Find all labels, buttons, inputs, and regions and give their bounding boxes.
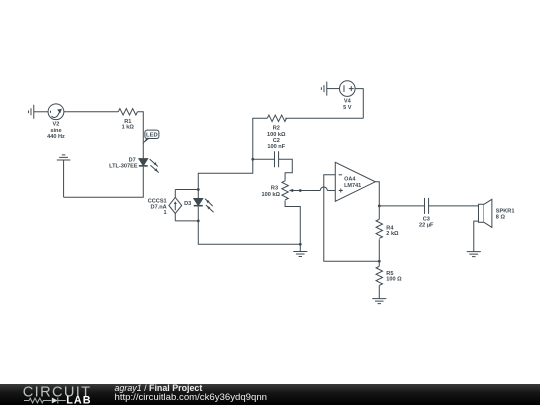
ground G6 below speaker xyxy=(467,252,481,257)
label R4 xyxy=(386,225,399,237)
feedback wire to - input xyxy=(324,175,380,262)
voltage source V4 xyxy=(339,81,355,97)
op-amp OA4 xyxy=(335,162,375,201)
label D7 xyxy=(109,158,138,170)
current source CCCS1 xyxy=(169,189,182,220)
label C2 xyxy=(267,138,285,150)
svg-text:LTL-307EE: LTL-307EE xyxy=(109,164,138,170)
wire node to CCCS1 top xyxy=(198,159,253,189)
wire CCCS top xyxy=(175,188,198,190)
svg-text:LED: LED xyxy=(146,133,158,139)
resistor R5 xyxy=(376,266,382,285)
resistor R4 xyxy=(376,219,382,238)
wire D7 to bottom xyxy=(64,167,144,198)
svg-text:sine: sine xyxy=(50,128,61,134)
svg-text:100 Ω: 100 Ω xyxy=(386,277,402,283)
svg-text:100 nF: 100 nF xyxy=(267,144,285,150)
svg-text:100 kΩ: 100 kΩ xyxy=(267,132,286,138)
capacitor C2 xyxy=(253,151,293,181)
output wire xyxy=(375,182,379,206)
junction node R3 wiper xyxy=(299,189,302,192)
label C3 xyxy=(419,217,434,229)
voltage source V2 xyxy=(48,104,64,120)
ground G2 inverted xyxy=(57,155,71,197)
svg-text:V4: V4 xyxy=(344,99,352,105)
ground G3 bottom rail xyxy=(293,244,307,256)
svg-text:D3: D3 xyxy=(184,201,191,207)
ground G4 left of V4 xyxy=(321,82,339,96)
speaker SPKR1 xyxy=(474,199,492,251)
svg-text:R2: R2 xyxy=(273,126,280,132)
footer bar xyxy=(0,384,540,405)
label R2 xyxy=(267,126,286,138)
label R1 xyxy=(122,119,135,131)
junction node CCCS1/D3 top xyxy=(197,188,200,191)
wire R4 to R5 xyxy=(378,239,380,266)
svg-text:OA4: OA4 xyxy=(344,177,356,183)
junction node op-amp output xyxy=(378,204,381,207)
svg-text:1: 1 xyxy=(164,210,167,216)
junction node R2/C2 xyxy=(251,158,254,161)
junction node CCCS1/D3 bottom xyxy=(197,219,200,222)
svg-text:V2: V2 xyxy=(53,122,60,128)
resistor R1 xyxy=(118,109,137,115)
capacitor C3 xyxy=(424,198,478,214)
wire R1 to D7 xyxy=(137,112,143,159)
svg-text:440 Hz: 440 Hz xyxy=(47,134,65,140)
svg-text:22 µF: 22 µF xyxy=(419,222,434,228)
label CCCS1 xyxy=(148,198,167,216)
LED callout xyxy=(142,130,159,144)
resistor R2 xyxy=(253,115,364,159)
svg-text:5 V: 5 V xyxy=(343,105,352,111)
wire V2 to R1 xyxy=(64,111,118,113)
label SPKR1 xyxy=(496,208,515,220)
svg-text:8 Ω: 8 Ω xyxy=(496,214,506,220)
ground G1 left of V2 xyxy=(28,105,48,119)
logo resistor-diode line xyxy=(24,398,66,404)
ground G5 below R5 xyxy=(372,285,386,303)
svg-text:1 kΩ: 1 kΩ xyxy=(122,124,135,130)
wire V4 down to R2 xyxy=(355,89,363,119)
photodiode D3 xyxy=(194,189,214,220)
svg-text:100 kΩ: 100 kΩ xyxy=(261,192,280,198)
label V4 xyxy=(343,99,352,112)
label R3 xyxy=(261,186,280,198)
junction node ground rail xyxy=(299,243,302,246)
LED D7 xyxy=(139,159,159,173)
svg-text:R3: R3 xyxy=(271,186,278,192)
label R5 xyxy=(386,271,402,283)
svg-text:http://circuitlab.com/ck6y36yd: http://circuitlab.com/ck6y36ydq9qnn xyxy=(115,392,268,403)
wire D3 down to bottom rail xyxy=(198,221,300,244)
wire hop into op-amp + input xyxy=(320,187,327,191)
svg-text:LM741: LM741 xyxy=(344,183,361,189)
svg-text:LAB: LAB xyxy=(66,394,92,405)
wire CCCS bottom xyxy=(175,220,198,222)
label V2 xyxy=(47,122,65,140)
junction node R4/R5 feedback xyxy=(378,260,381,263)
potentiometer R3 xyxy=(282,181,320,245)
svg-text:2 kΩ: 2 kΩ xyxy=(386,231,399,237)
